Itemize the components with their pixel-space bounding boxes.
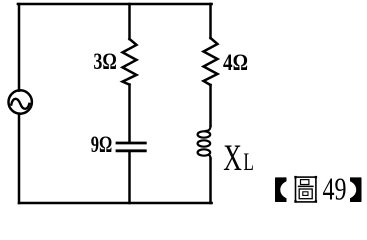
wire bottom bus <box>19 202 212 205</box>
label XL <box>223 138 254 179</box>
inductor L XL <box>198 126 211 159</box>
resistor R 3ohm <box>123 39 137 85</box>
wire middle branch top <box>128 4 131 39</box>
right lenticular bracket <box>350 177 362 202</box>
wire middle branch mid <box>128 85 131 142</box>
wire top bus <box>18 3 212 6</box>
wire middle branch bottom <box>128 152 131 203</box>
svg-text:4Ω: 4Ω <box>223 50 248 75</box>
glyph TU (figure) drawn <box>294 176 317 203</box>
svg-text:3Ω: 3Ω <box>93 49 117 74</box>
wire right branch top <box>209 4 212 38</box>
svg-text:L: L <box>243 149 254 176</box>
wire right branch mid <box>209 85 212 126</box>
svg-text:9Ω: 9Ω <box>91 132 113 157</box>
wire left branch lower <box>18 114 21 203</box>
svg-text:49: 49 <box>323 171 347 206</box>
caption figure 49 <box>275 171 362 206</box>
capacitor C 9ohm <box>117 143 145 151</box>
resistor R 4ohm <box>204 38 218 85</box>
left lenticular bracket <box>275 177 287 202</box>
wire left branch upper <box>18 4 21 91</box>
wire right branch bottom <box>209 159 212 204</box>
svg-text:X: X <box>223 138 242 179</box>
AC source VS <box>9 90 32 113</box>
